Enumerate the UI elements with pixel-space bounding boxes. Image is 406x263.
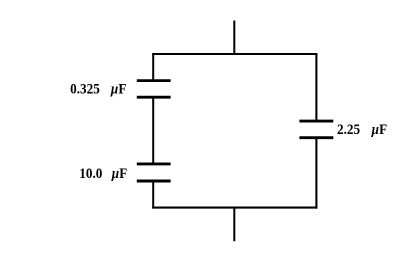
svg-text:F: F [379,121,387,138]
svg-text:2.25: 2.25 [337,121,360,138]
capacitor C1 0.325 uF top plate [137,79,171,82]
label C1 value 0.325 uF [70,80,126,97]
svg-text:μ: μ [371,121,379,138]
top terminal wire [233,21,235,56]
capacitor C2 10.0 uF bottom plate [137,180,171,183]
top rail wire [152,53,317,55]
bottom rail wire [152,207,317,209]
label C2 value 10.0 uF [79,165,127,182]
label C3 value 2.25 uF [337,121,387,138]
wire left rail top segment [152,53,154,81]
wire right rail top segment [315,53,317,121]
svg-text:F: F [119,165,127,182]
capacitor C3 2.25 uF bottom plate [299,136,333,139]
svg-text:0.325: 0.325 [70,80,100,97]
capacitor C1 0.325 uF bottom plate [137,96,171,99]
wire C2 to bottom rail [152,181,154,209]
svg-text:μ: μ [111,165,119,182]
svg-text:10.0: 10.0 [79,165,102,182]
capacitor C2 10.0 uF top plate [137,162,171,165]
wire between C1 and C2 [152,97,154,165]
bottom terminal wire [233,207,235,241]
wire right rail bottom segment [315,137,317,209]
svg-text:μ: μ [110,80,118,97]
capacitor C3 2.25 uF top plate [299,120,333,123]
svg-text:F: F [118,80,126,97]
